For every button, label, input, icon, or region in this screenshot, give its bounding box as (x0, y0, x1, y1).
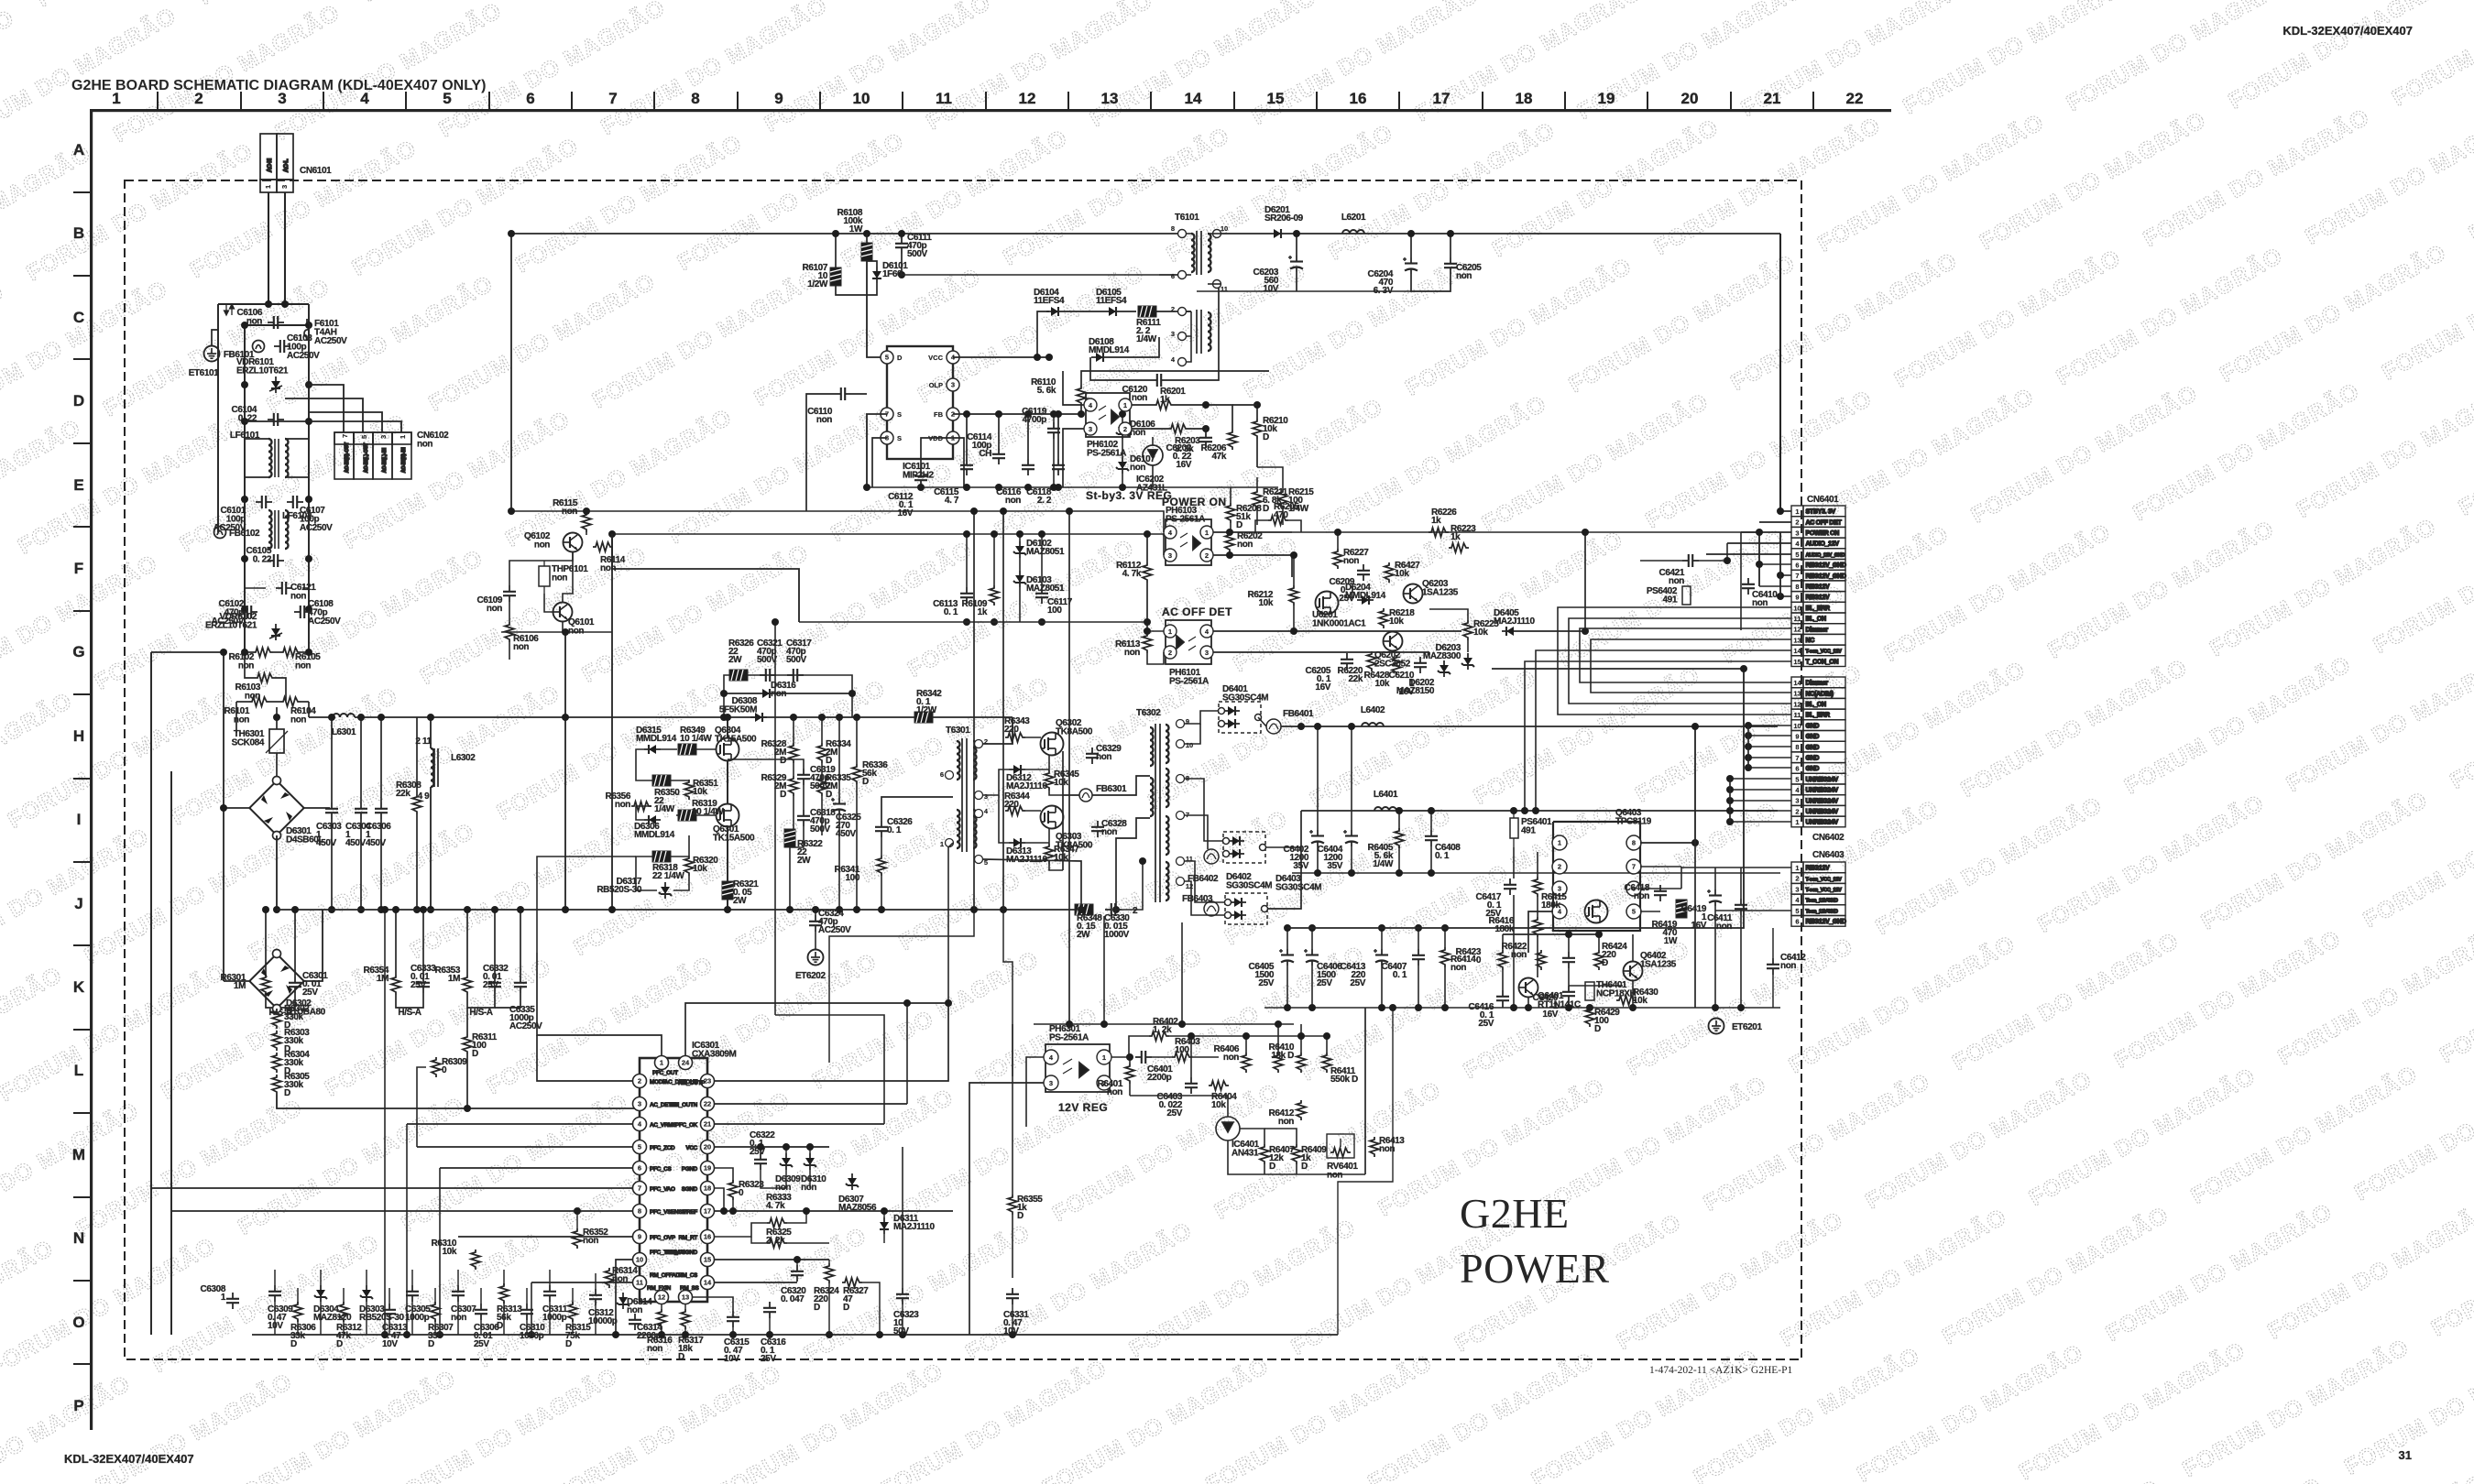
wire (1129, 1084, 1131, 1096)
wire LF6101 top right (285, 438, 309, 440)
junction (1726, 786, 1734, 793)
pin 2 FB of IC6101 (947, 408, 959, 420)
svg-text:7: 7 (608, 90, 617, 107)
junction (1284, 924, 1316, 1011)
wire R6306 up (297, 1288, 299, 1304)
resistor R6112 (1116, 561, 1152, 583)
junction (1202, 401, 1210, 432)
wire CN6402 unreg 11 (1730, 800, 1791, 802)
pin 6 PFC_CS of IC6301 (633, 1162, 647, 1175)
wire D6303 up (366, 1270, 367, 1285)
wire (727, 900, 728, 910)
wire net loop 2 (1569, 618, 1791, 704)
wire CN6402 gnd 8 (1748, 767, 1791, 769)
svg-text:3: 3 (1168, 551, 1172, 560)
junction (903, 999, 952, 1007)
wire (947, 1002, 949, 1004)
svg-text:8: 8 (691, 90, 699, 107)
wire THP to Q6101 base (544, 594, 553, 612)
svg-text:14: 14 (1793, 647, 1801, 655)
junction (381, 906, 389, 1338)
pin 23 AC_DETOUT of IC6301 (701, 1075, 715, 1088)
resistor R6307 (428, 1302, 454, 1349)
svg-text:GND: GND (1806, 745, 1820, 751)
wire VDD down (953, 438, 964, 487)
svg-text:1: 1 (1558, 839, 1561, 847)
wire (1219, 854, 1223, 857)
svg-text:12: 12 (1019, 90, 1036, 107)
bridge rectifier D6301 (249, 777, 303, 840)
ferrite bead FB6402 (1204, 849, 1219, 864)
resistor R6208 (1226, 503, 1262, 530)
mosfet Q6302 (1041, 733, 1064, 756)
resistor R6114 (593, 542, 626, 573)
wire (1294, 606, 1316, 608)
svg-text:1: 1 (1168, 627, 1172, 636)
wire (1264, 1164, 1265, 1174)
wire (797, 1282, 842, 1283)
wire (881, 837, 882, 856)
svg-text:31: 31 (2399, 1448, 2412, 1462)
wire Q6402 up (1632, 934, 1634, 961)
svg-text:3: 3 (278, 90, 286, 107)
wire (1340, 1158, 1341, 1174)
wire CN6402 gnd 7 (1748, 757, 1791, 758)
capacitor C6329 (1086, 744, 1122, 764)
wire (1122, 474, 1123, 487)
capacitor C6403 (1157, 1077, 1198, 1118)
junction (1745, 722, 1752, 729)
wire (901, 234, 903, 237)
junction (241, 300, 312, 613)
wire to T6301 tap (881, 797, 953, 821)
capacitor C6114 (967, 432, 1005, 464)
resistor PS6401 491 (1510, 818, 1518, 838)
svg-text:16: 16 (1350, 90, 1367, 107)
wire (1091, 717, 1093, 747)
wire (1740, 532, 1742, 630)
thermistor TH6301 (269, 729, 284, 753)
wire (798, 569, 800, 622)
capacitor C6404 (1318, 830, 1358, 871)
capacitor C6112 (888, 470, 927, 518)
svg-text:T_CON_ON: T_CON_ON (1806, 659, 1839, 665)
wire (1640, 866, 1681, 867)
wire second rail (245, 324, 309, 326)
svg-text:C63300. 0151000V: C63300. 0151000V (1104, 913, 1130, 940)
wire R6114 to col (612, 546, 613, 548)
svg-text:GND: GND (1806, 756, 1820, 762)
mosfet symbol inside Q6403 (1585, 900, 1608, 923)
svg-text:H: H (73, 727, 84, 745)
svg-text:17: 17 (1433, 90, 1450, 107)
wire C6311 down (549, 1302, 551, 1335)
capacitor C6209 (1330, 564, 1370, 604)
svg-text:L6302: L6302 (451, 753, 476, 763)
svg-text:5: 5 (638, 1143, 641, 1151)
wire (1230, 523, 1232, 534)
junction (1144, 618, 1151, 635)
svg-text:Tcon_12VGND: Tcon_12VGND (1806, 899, 1838, 904)
resistor R6203 (1168, 424, 1200, 454)
resistor R6318 (652, 851, 684, 881)
wire AC_VRMS left (407, 1123, 632, 1125)
svg-text:RM_CSGND: RM_CSGND (666, 1249, 698, 1256)
wire (1012, 1215, 1013, 1278)
svg-text:T-con_VCC_12V: T-con_VCC_12V (1806, 877, 1843, 882)
svg-text:AC-N: AC-N (267, 158, 273, 172)
svg-text:1: 1 (1123, 401, 1127, 409)
wire C6121 right (302, 587, 309, 589)
resistor R6109 (962, 585, 999, 617)
wire R6315 up (572, 1288, 574, 1304)
wire (1277, 1024, 1279, 1053)
wire T_CON_ON ext (1535, 760, 1537, 811)
wire CN6401 pin3 (1741, 531, 1791, 533)
svg-text:2: 2 (1168, 649, 1172, 657)
wire (883, 1234, 885, 1243)
wire HS-A loop2 (396, 993, 423, 1008)
svg-text:5: 5 (443, 90, 451, 107)
wire 12V bus (1301, 810, 1778, 812)
dual diode D6402 SG30SC4M (1223, 832, 1266, 863)
wire (1169, 1035, 1191, 1037)
svg-text:3: 3 (1795, 885, 1799, 893)
junction (1144, 530, 1151, 538)
pin 20 VCC of IC6301 (701, 1140, 715, 1154)
svg-text:L6401: L6401 (1374, 790, 1398, 800)
junction (995, 410, 1002, 418)
svg-text:T-con_VCC_12V: T-con_VCC_12V (1806, 888, 1843, 893)
wire (715, 1282, 770, 1302)
diode D6101 (872, 261, 908, 283)
svg-text:PFC_VSENSE: PFC_VSENSE (650, 1209, 686, 1216)
junction (790, 714, 797, 721)
wire CN6402 unreg 12 (1730, 810, 1791, 812)
wire FB net (953, 413, 1081, 415)
T6101 pin rings (1178, 230, 1187, 238)
capacitor C6116 (996, 459, 1034, 506)
svg-text:3: 3 (1049, 1079, 1053, 1087)
wire (1025, 842, 1049, 844)
resistor R6306 (290, 1302, 316, 1349)
wire CN6402 unreg 10 (1730, 789, 1791, 791)
ferrite bead FB6301 (1079, 789, 1092, 802)
grid row ticks (73, 192, 91, 1364)
wire PFC_ZCD left (417, 1146, 632, 1148)
wire D6304 up (320, 1270, 322, 1285)
wire (1230, 487, 1232, 503)
svg-text:8: 8 (1171, 224, 1175, 233)
mosfet U6201 (1316, 592, 1339, 615)
wire gate rail (1503, 933, 1599, 935)
wire (1450, 234, 1451, 257)
resistor R6347 (1045, 844, 1079, 864)
resistor R6334 (817, 739, 851, 766)
wire (1147, 630, 1164, 632)
capacitor C6312 (588, 1289, 618, 1326)
wire (789, 847, 791, 910)
wire (1337, 531, 1339, 533)
svg-text:18: 18 (704, 1184, 711, 1193)
wire (787, 1211, 806, 1223)
wire (696, 814, 717, 816)
diode D6311 (880, 1214, 935, 1234)
pin 5 PFC_ZCD of IC6301 (633, 1140, 647, 1154)
capacitor C6110 (807, 387, 851, 425)
svg-text:12: 12 (1793, 626, 1801, 634)
wire staircase A (829, 910, 1081, 1063)
svg-text:1: 1 (1795, 507, 1799, 516)
thermal protector THP6101 (539, 566, 550, 586)
wire PH6102 p4 (1063, 371, 1084, 405)
wire (1019, 587, 1021, 622)
pin 18 SGND of IC6301 (701, 1182, 715, 1195)
pin 1 VDD of IC6101 (947, 431, 959, 444)
wire CN6401 pin2 (1759, 521, 1791, 523)
potentiometer RV6401 (1327, 1134, 1354, 1158)
wire (1025, 769, 1049, 770)
svg-text:10: 10 (853, 90, 870, 107)
svg-text:22: 22 (1846, 90, 1864, 107)
wire C6309 down (274, 1302, 276, 1335)
wire (921, 438, 953, 470)
wire T6301 pin5 to gnd bus (983, 859, 1081, 910)
wire bridge left (224, 807, 251, 809)
svg-text:C63200. 047: C63200. 047 (781, 1286, 806, 1304)
resistor R6401 (1098, 1064, 1134, 1097)
wire (751, 1237, 767, 1243)
wire routing loop A (1287, 669, 1744, 928)
wire (1286, 966, 1288, 1008)
svg-text:UNREG24V: UNREG24V (1806, 777, 1839, 783)
svg-text:9: 9 (1795, 594, 1799, 602)
wire PH6101 p3 right (1213, 651, 1429, 653)
wire (586, 532, 587, 535)
capacitor C6108 470p (294, 606, 311, 618)
wire SGND (715, 1188, 724, 1211)
resistor R6312 (336, 1302, 362, 1349)
svg-text:1: 1 (1795, 864, 1799, 872)
capacitor C6104 0.22 (268, 413, 284, 426)
inductor L6201 (1342, 230, 1364, 234)
wire (509, 632, 510, 642)
resistor R6348 (1075, 904, 1102, 940)
resistor R6303 (272, 1028, 310, 1054)
resistor R6430 (1616, 988, 1658, 1006)
shunt regulator IC6401 AN431 (1216, 1117, 1240, 1140)
wire HV top bus (511, 234, 1159, 511)
wire Q6403 p8 out (1640, 842, 1695, 844)
wire (395, 910, 397, 975)
svg-text:4 9: 4 9 (418, 791, 431, 802)
svg-text:ET6101: ET6101 (189, 368, 219, 378)
svg-text:7: 7 (1795, 754, 1799, 762)
svg-text:20: 20 (1681, 90, 1699, 107)
wire PFC_OK up (775, 1015, 884, 1124)
wire C6306 down (480, 1320, 482, 1335)
wire CN6401 pin5 (1706, 553, 1791, 555)
wire (1245, 1036, 1247, 1053)
wire (1418, 928, 1419, 949)
resistor R6305 (272, 1072, 310, 1098)
wire T pin9 to D6401 (1185, 711, 1219, 724)
wire T6101 aux tap (1186, 311, 1191, 336)
wire bottom gnd bus right (1264, 1007, 1780, 1009)
wire LF6101 top left (245, 438, 268, 440)
wire (1659, 901, 1661, 911)
svg-text:R6411550k D: R6411550k D (1330, 1066, 1358, 1085)
zener D6106 (1116, 420, 1155, 439)
capacitor C6308 (201, 1284, 239, 1309)
resistor R6341 (835, 856, 886, 883)
wire (1537, 937, 1538, 977)
wire CN6402 gnd 5 (1748, 735, 1791, 737)
svg-text:10: 10 (636, 1256, 643, 1264)
inductor L6301 (333, 714, 355, 717)
capacitor C6408 (1425, 830, 1461, 861)
svg-text:BL_ERR: BL_ERR (1806, 713, 1830, 719)
wire (661, 748, 677, 750)
wire C6303 top (331, 717, 333, 802)
wire (1196, 362, 1198, 380)
wire (1740, 915, 1742, 1008)
svg-text:BL_ON: BL_ON (1806, 617, 1826, 623)
wire PH6301 p4 (1026, 1057, 1044, 1127)
svg-text:H/S-A: H/S-A (398, 1008, 421, 1018)
wire (732, 1327, 734, 1335)
svg-text:10: 10 (1186, 741, 1193, 749)
capacitor C6331 (1003, 1288, 1029, 1337)
svg-text:PFC_OVP: PFC_OVP (650, 1235, 676, 1241)
capacitor C6328 (1091, 819, 1127, 837)
inductor L6402 (1362, 723, 1384, 726)
svg-text:CN6402: CN6402 (1812, 833, 1845, 843)
wire left rail bridges (223, 808, 224, 981)
svg-text:11: 11 (936, 90, 952, 107)
wire (466, 1008, 468, 1034)
svg-text:REG12V: REG12V (1806, 584, 1830, 591)
wire left vertical top link (151, 651, 224, 653)
svg-text:FB6402: FB6402 (1188, 874, 1219, 884)
svg-text:VCC: VCC (928, 354, 943, 362)
wire (269, 701, 280, 703)
wire to Q6402 base (1569, 985, 1623, 987)
pin 12 RM_FXIN of IC6301 (655, 1291, 669, 1304)
wire col 580 (531, 1282, 532, 1335)
svg-text:RM_CS: RM_CS (678, 1272, 698, 1279)
wire (1537, 852, 1538, 877)
wire (793, 796, 794, 835)
svg-text:TH6301SCK084: TH6301SCK084 (232, 729, 265, 748)
resistor R6322 (784, 829, 823, 866)
wire R6306 down (297, 1320, 299, 1335)
wire (815, 932, 816, 949)
svg-text:PFC_OUT: PFC_OUT (652, 1070, 678, 1076)
wire (1715, 877, 1791, 878)
svg-text:6: 6 (1795, 918, 1799, 926)
resistor R6349 (678, 726, 712, 755)
svg-text:O: O (72, 1314, 84, 1331)
wire (785, 1170, 787, 1188)
junction (1629, 1004, 1637, 1011)
svg-text:2: 2 (1795, 875, 1799, 883)
svg-text:AC-IN(N)-IN: AC-IN(N)-IN (401, 447, 407, 473)
svg-text:S: S (897, 434, 902, 442)
wire long left vertical 1 (150, 652, 152, 1335)
svg-text:14: 14 (704, 1279, 712, 1287)
resistor R6423 (1456, 947, 1507, 970)
wire (1121, 311, 1136, 312)
fuse F6101 T4AH AC250V (304, 319, 310, 341)
svg-text:2: 2 (1133, 906, 1138, 916)
svg-text:Tcon_12VGND: Tcon_12VGND (1806, 909, 1838, 914)
svg-text:NC: NC (1806, 638, 1815, 644)
junction (853, 714, 860, 913)
wire (466, 1054, 468, 1108)
wire (1264, 1129, 1297, 1144)
pin 24 RM_OUTP of IC6301 (679, 1056, 693, 1070)
wire reg to bottom bus (1338, 1008, 1393, 1335)
capacitor C6321 (757, 638, 783, 682)
wire (1186, 336, 1191, 362)
transformer T6101 (1191, 231, 1211, 354)
diode D6316 (758, 681, 796, 699)
svg-text:AUDIO_12V_GND: AUDIO_12V_GND (1806, 552, 1845, 558)
wire long bottom bus (252, 1334, 1338, 1336)
wire (1351, 846, 1352, 873)
wire C6120 to T6101 11 (1167, 284, 1219, 380)
mosfet Q6301 (717, 804, 739, 827)
junction (1226, 529, 1233, 559)
wire (1122, 414, 1123, 422)
wire cap gnd link (1411, 274, 1450, 291)
wire R6345 bot (1049, 791, 1063, 795)
resistor R6309 (432, 1057, 467, 1077)
wire PFC snubber loop (724, 675, 852, 717)
wire RM_OUTP (685, 1003, 948, 1055)
wire (276, 1008, 278, 1009)
wire gnd col (1747, 726, 1749, 768)
resistor R6321 (722, 879, 759, 906)
wire VCC right (715, 1146, 829, 1148)
junction (836, 906, 843, 913)
junction (876, 1331, 906, 1338)
capacitor C6319 (797, 765, 836, 791)
wire (1502, 934, 1504, 950)
wire CN6402 gnd 6 (1748, 746, 1791, 747)
wire C6306 up (480, 1288, 482, 1304)
resistor R6220 (1338, 651, 1376, 684)
wire R6318 loop (636, 857, 657, 890)
wire HS-A loop3 (467, 993, 495, 1008)
capacitor C6102 470p (241, 606, 257, 618)
junction (1297, 723, 1305, 730)
svg-text:3: 3 (1795, 797, 1799, 805)
wire (1027, 414, 1029, 459)
wire Q6101 c to Q6102 (563, 552, 573, 602)
connector CN6101 (260, 134, 293, 192)
wire C6110 left (806, 394, 835, 511)
capacitor C6210 (1389, 657, 1427, 697)
wire Q6101 e down (562, 622, 564, 632)
wire T pin12 (1185, 881, 1225, 915)
wire (245, 651, 253, 653)
capacitor C6317 (786, 638, 812, 682)
wire (796, 1260, 798, 1265)
wire det rail to Q area (612, 534, 799, 622)
junction (818, 714, 826, 721)
